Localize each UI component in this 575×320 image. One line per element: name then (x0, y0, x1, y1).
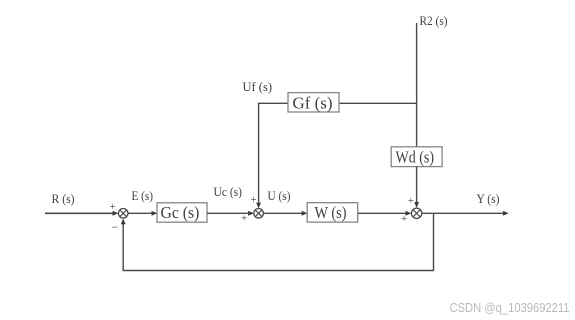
block W(s) (307, 203, 358, 223)
svg-text:+: + (110, 201, 116, 213)
wire R2 vertical down to Wd(s) (416, 23, 418, 147)
summing junction S2 (254, 209, 264, 219)
wire Gf(s) output to R2 line (339, 102, 417, 104)
svg-text:U (s): U (s) (268, 188, 291, 203)
block Gc(s) (157, 203, 207, 222)
summing junction S3 (411, 208, 421, 218)
wire W(s) to S3 (358, 212, 406, 214)
svg-text:+: + (408, 195, 414, 207)
svg-text:+: + (401, 213, 407, 225)
svg-text:W (s): W (s) (315, 203, 347, 222)
wire Gf(s) input elbow down to summing junction S2 (259, 103, 288, 203)
wire R(s) input to S1 (45, 212, 113, 214)
svg-text:−: − (112, 220, 119, 234)
wire S2 to W(s) (263, 212, 302, 214)
svg-text:Y (s): Y (s) (477, 191, 500, 206)
svg-text:E (s): E (s) (132, 188, 154, 203)
svg-text:Uc (s): Uc (s) (214, 184, 243, 199)
svg-text:Gc (s): Gc (s) (161, 203, 200, 222)
wire S1 to Gc(s) (128, 212, 152, 214)
block Wd(s) (391, 147, 442, 167)
summing junction S1 (118, 209, 128, 219)
svg-text:Uf (s): Uf (s) (243, 79, 273, 94)
wire Wd(s) output down to summing junction S3 (416, 167, 418, 203)
svg-text:Gf (s): Gf (s) (293, 93, 333, 112)
svg-text:Wd (s): Wd (s) (396, 147, 435, 166)
wire S3 to Y(s) output (422, 212, 504, 214)
svg-text:CSDN @q_1039692211: CSDN @q_1039692211 (450, 300, 570, 315)
block Gf(s) (288, 93, 339, 113)
wire Gc(s) to S2 (207, 212, 249, 214)
wire feedback from output down, left, and up into S1 (123, 213, 433, 270)
svg-text:+: + (251, 194, 257, 206)
svg-text:R2 (s): R2 (s) (420, 13, 448, 28)
svg-text:+: + (241, 213, 247, 225)
svg-text:R (s): R (s) (52, 191, 75, 206)
